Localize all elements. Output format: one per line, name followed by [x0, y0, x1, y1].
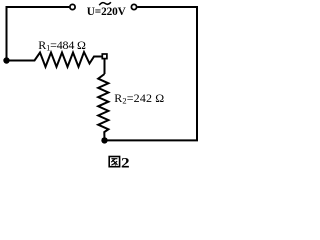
svg-text:R2=242 Ω: R2=242 Ω	[114, 91, 164, 106]
caption: hanzi "tu" (figure) drawn as strokes	[109, 157, 119, 167]
connector square terminal	[102, 54, 107, 59]
wire: top-right segment	[137, 6, 197, 8]
wire: left side	[6, 6, 8, 61]
wire: right side	[196, 6, 198, 140]
resistor R1 (zigzag) with leads	[7, 52, 103, 67]
terminal b (open circle, right)	[131, 4, 136, 9]
wire: R2 top lead	[104, 59, 106, 74]
node junction (left)	[3, 57, 9, 63]
wire: bottom segment	[105, 139, 199, 141]
terminal a (open circle, left)	[70, 4, 75, 9]
tilde (AC) over 220	[99, 2, 111, 5]
svg-text:R1=484 Ω: R1=484 Ω	[38, 38, 86, 53]
wire: top-left segment	[7, 6, 70, 8]
resistor R2 (zigzag)	[98, 74, 108, 140]
svg-text:2: 2	[121, 155, 130, 172]
node junction (bottom)	[101, 137, 107, 143]
svg-text:U=220V: U=220V	[87, 6, 127, 18]
